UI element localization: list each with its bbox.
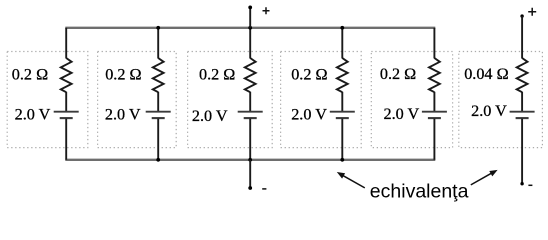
battery B4 short plate (-) xyxy=(336,117,349,119)
wire bottom bus (-) rail xyxy=(65,159,435,161)
wire battery B3 bottom segment xyxy=(249,119,251,160)
resistor R2 0.2 ohm zigzag xyxy=(153,58,164,92)
svg-text:0.2 Ω: 0.2 Ω xyxy=(291,66,327,84)
junction node bottom bus at x=250 xyxy=(248,158,252,162)
wire branch 4 top segment xyxy=(341,28,343,59)
wire battery B2 bottom segment xyxy=(157,119,159,160)
battery B5 long plate (+) xyxy=(422,111,447,113)
wire equivalent branch top segment xyxy=(521,16,523,58)
node positive terminal dot xyxy=(248,6,252,10)
battery Beq long plate (+) xyxy=(510,111,535,113)
dotted outline box of cell 4 xyxy=(281,52,362,148)
wire resistor R4 to battery B4 xyxy=(341,92,343,111)
svg-text:2.0 V: 2.0 V xyxy=(192,107,228,125)
node negative terminal dot xyxy=(248,186,252,190)
resistor R5 0.2 ohm zigzag xyxy=(429,58,440,92)
battery B1 long plate (+) xyxy=(54,111,79,113)
junction node top bus at x=158 xyxy=(156,26,160,30)
svg-text:0.04 Ω: 0.04 Ω xyxy=(464,65,508,83)
svg-text:0.2 Ω: 0.2 Ω xyxy=(199,66,235,84)
wire Req to equivalent battery xyxy=(521,92,523,111)
resistor Req 0.04 ohm zigzag xyxy=(517,58,528,92)
battery B2 long plate (+) xyxy=(146,111,171,113)
label - of battery bank xyxy=(262,188,266,190)
junction node bottom bus at x=342 xyxy=(340,158,344,162)
label + of equivalent cell xyxy=(528,8,536,16)
svg-text:0.2 Ω: 0.2 Ω xyxy=(105,66,141,84)
svg-text:echivalenţa: echivalenţa xyxy=(370,181,469,203)
battery B4 long plate (+) xyxy=(330,111,355,113)
svg-text:2.0 V: 2.0 V xyxy=(384,105,420,123)
battery B5 short plate (-) xyxy=(428,117,441,119)
svg-text:2.0 V: 2.0 V xyxy=(105,106,141,124)
wire positive terminal stub xyxy=(249,7,251,27)
wire branch 1 top segment xyxy=(65,28,67,59)
battery B2 short plate (-) xyxy=(152,117,165,119)
wire battery B1 bottom segment xyxy=(65,119,67,160)
arrow from echivalenta to battery bank xyxy=(337,172,365,188)
svg-text:0.2 Ω: 0.2 Ω xyxy=(380,65,416,83)
junction node top bus at x=250 xyxy=(248,26,252,30)
dotted outline box of cell 3 xyxy=(188,52,273,148)
resistor R1 0.2 ohm zigzag xyxy=(61,58,72,92)
node equivalent + terminal dot xyxy=(520,14,523,17)
battery B1 short plate (-) xyxy=(60,117,73,119)
wire resistor R5 to battery B5 xyxy=(433,92,435,111)
wire battery B5 bottom segment xyxy=(433,119,435,160)
wire resistor R3 to battery B3 xyxy=(249,92,251,111)
label + of battery bank xyxy=(263,7,270,14)
dotted outline box of cell 5 xyxy=(371,52,452,148)
junction node top bus at x=342 xyxy=(340,26,344,30)
wire branch 5 top segment xyxy=(433,28,435,59)
resistor R4 0.2 ohm zigzag xyxy=(337,58,348,92)
node equivalent - terminal dot xyxy=(520,182,523,185)
battery B3 short plate (-) xyxy=(244,117,257,119)
battery Beq short plate (-) xyxy=(516,117,529,119)
svg-text:2.0 V: 2.0 V xyxy=(15,106,51,124)
dotted outline box of cell 1 xyxy=(7,52,88,148)
wire equivalent branch bottom segment xyxy=(521,119,523,184)
wire resistor R2 to battery B2 xyxy=(157,92,159,111)
wire branch 2 top segment xyxy=(157,28,159,59)
battery B3 long plate (+) xyxy=(238,111,263,113)
resistor R3 0.2 ohm zigzag xyxy=(245,58,256,92)
dotted outline box of equivalent cell xyxy=(459,52,543,148)
junction node bottom bus at x=158 xyxy=(156,158,160,162)
svg-text:2.0 V: 2.0 V xyxy=(291,106,327,124)
wire branch 3 top segment xyxy=(249,28,251,59)
svg-text:2.0 V: 2.0 V xyxy=(471,102,507,120)
svg-text:0.2 Ω: 0.2 Ω xyxy=(12,66,48,84)
dotted outline box of cell 2 xyxy=(98,52,177,148)
wire top bus (+) rail xyxy=(65,27,435,29)
label - of equivalent cell xyxy=(528,184,532,186)
wire battery B4 bottom segment xyxy=(341,119,343,160)
wire negative terminal stub xyxy=(249,160,251,188)
arrow from echivalenta to equivalent cell xyxy=(471,170,498,185)
wire resistor R1 to battery B1 xyxy=(65,92,67,111)
